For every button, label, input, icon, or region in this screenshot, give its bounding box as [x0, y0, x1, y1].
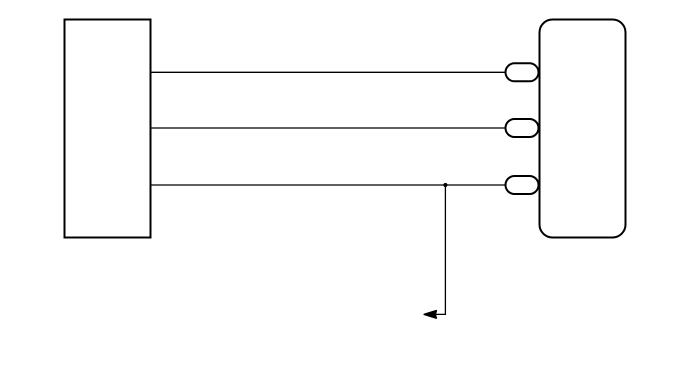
pin 3: [506, 176, 539, 194]
wire 1: [152, 71, 506, 73]
wire 2: [152, 127, 506, 129]
arrowhead: [424, 311, 436, 318]
left component block: [65, 20, 151, 238]
pin 1: [506, 63, 539, 81]
pin 2: [506, 119, 539, 137]
wire 3: [152, 184, 506, 186]
right connector body: [540, 20, 626, 238]
wire down from junction: [436, 185, 445, 314]
junction: [443, 183, 447, 187]
